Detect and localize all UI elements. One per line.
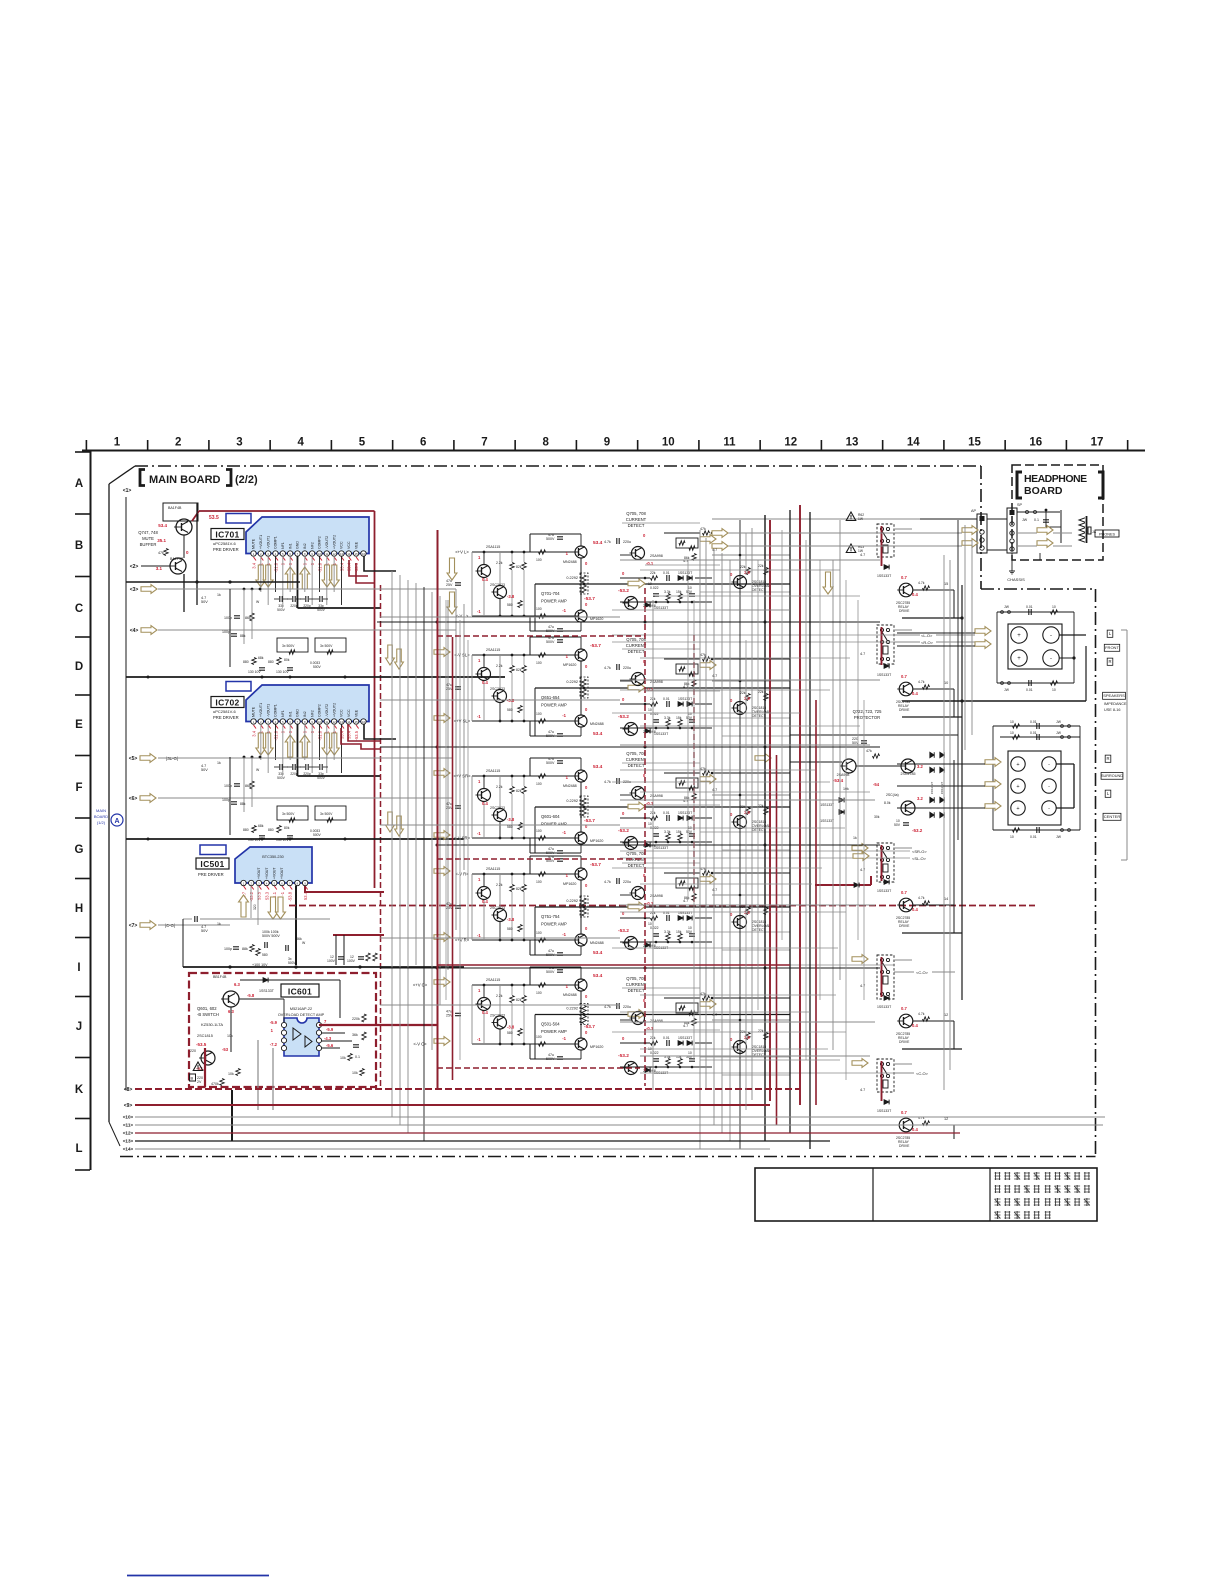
svg-text:100V: 100V	[347, 959, 356, 963]
svg-text:2SC1815: 2SC1815	[197, 1034, 213, 1038]
svg-text:0.4: 0.4	[912, 691, 918, 696]
svg-text:1SS133T: 1SS133T	[678, 697, 692, 701]
svg-text:0.01: 0.01	[1026, 605, 1033, 609]
svg-text:NF1: NF1	[281, 542, 285, 549]
svg-text:-53.2: -53.2	[618, 828, 629, 834]
svg-text:4: 4	[298, 437, 305, 449]
svg-text:4.7k: 4.7k	[918, 896, 925, 900]
svg-text:4.7: 4.7	[712, 1013, 717, 1017]
svg-text:DRIVE: DRIVE	[899, 1040, 910, 1044]
svg-text:4.7: 4.7	[860, 984, 865, 988]
svg-text:88k: 88k	[240, 634, 246, 638]
svg-text:1SS133T: 1SS133T	[930, 782, 934, 795]
svg-text:Q705, 708: Q705, 708	[626, 976, 646, 981]
svg-text:<10>: <10>	[123, 1115, 134, 1120]
svg-text:+VOUT1: +VOUT1	[259, 703, 263, 717]
svg-text:0.01: 0.01	[1030, 720, 1037, 724]
svg-text:100: 100	[536, 931, 542, 935]
svg-text:-53.5: -53.5	[196, 1042, 207, 1047]
svg-text:-: -	[1050, 656, 1052, 662]
svg-text:12: 12	[784, 437, 797, 449]
svg-text:1k: 1k	[217, 922, 221, 926]
svg-text:3.3k: 3.3k	[664, 716, 671, 720]
svg-text:3x 500V: 3x 500V	[282, 644, 295, 648]
svg-text:580: 580	[262, 953, 268, 957]
svg-text:4.7k: 4.7k	[604, 880, 611, 884]
svg-text:Q651-654: Q651-654	[541, 695, 560, 700]
svg-text:68k: 68k	[258, 824, 264, 828]
svg-text:53.4: 53.4	[593, 764, 603, 770]
svg-text:MUTE: MUTE	[252, 706, 256, 717]
svg-text:-3.8: -3.8	[507, 1025, 515, 1030]
svg-text:580: 580	[507, 927, 513, 931]
svg-text:4.7: 4.7	[712, 674, 717, 678]
svg-text:Q501-504: Q501-504	[541, 1022, 560, 1027]
svg-text:+VOUT: +VOUT	[280, 868, 284, 879]
svg-text:<+V C>: <+V C>	[413, 983, 428, 988]
svg-text:10: 10	[648, 708, 652, 712]
svg-text:PRE DRIVER: PRE DRIVER	[213, 715, 239, 720]
svg-text:4.7: 4.7	[712, 788, 717, 792]
svg-text:3.1: 3.1	[156, 566, 163, 571]
svg-text:DETECT: DETECT	[752, 588, 766, 592]
svg-text:2SA1115: 2SA1115	[486, 648, 500, 652]
svg-text:0.01: 0.01	[1026, 688, 1033, 692]
svg-text:220: 220	[190, 1049, 196, 1053]
svg-text:NF2: NF2	[310, 710, 314, 717]
svg-text:MP1620: MP1620	[590, 839, 603, 843]
svg-text:POWER AMP: POWER AMP	[541, 922, 567, 927]
svg-text:1SS133T: 1SS133T	[678, 811, 692, 815]
svg-text:8.0k: 8.0k	[884, 801, 891, 805]
svg-text:DETECT: DETECT	[752, 928, 766, 932]
svg-text:3.2: 3.2	[917, 764, 923, 769]
svg-text:COMP1: COMP1	[274, 704, 278, 717]
svg-text:-53.7: -53.7	[590, 862, 601, 868]
svg-text:<2>: <2>	[130, 564, 139, 570]
svg-text:DETECT: DETECT	[628, 523, 645, 528]
svg-text:500V: 500V	[317, 776, 326, 780]
svg-text:0.4: 0.4	[912, 592, 918, 597]
svg-text:1SS133T: 1SS133T	[820, 803, 834, 807]
svg-text:470k: 470k	[211, 1082, 219, 1086]
svg-text:8: 8	[543, 437, 550, 449]
svg-text:-53: -53	[222, 1047, 229, 1052]
svg-text:F: F	[75, 782, 82, 794]
svg-text:2.2k: 2.2k	[496, 994, 503, 998]
svg-text:0.2292: 0.2292	[566, 680, 578, 684]
svg-text:53.4: 53.4	[593, 731, 603, 737]
svg-text:500V: 500V	[288, 961, 297, 965]
svg-text:JW: JW	[1022, 518, 1028, 522]
svg-text:880: 880	[268, 828, 274, 832]
svg-text:3.9: 3.9	[744, 1035, 750, 1040]
svg-text:MUTE: MUTE	[252, 538, 256, 549]
svg-text:2: 2	[175, 437, 181, 449]
svg-text:2SC3623: 2SC3623	[490, 906, 505, 910]
svg-text:DETECT: DETECT	[628, 649, 645, 654]
svg-text:0.01: 0.01	[663, 571, 670, 575]
svg-text:BUFFER: BUFFER	[140, 542, 157, 547]
svg-text:SURROUND: SURROUND	[1101, 774, 1123, 778]
svg-text:-53.7: -53.7	[590, 643, 601, 649]
svg-text:100p: 100p	[224, 784, 232, 788]
svg-text:<-V R>: <-V R>	[455, 872, 469, 877]
svg-text:53.4: 53.4	[158, 523, 167, 528]
svg-text:13: 13	[846, 437, 859, 449]
svg-text:CURRENT: CURRENT	[626, 643, 647, 648]
svg-text:53.5: 53.5	[257, 891, 262, 900]
svg-text:2.2k: 2.2k	[496, 561, 503, 565]
svg-text:2.2k: 2.2k	[496, 664, 503, 668]
svg-text:220u: 220u	[623, 880, 631, 884]
svg-text:CURRENT: CURRENT	[626, 517, 647, 522]
svg-text:22k: 22k	[740, 565, 746, 569]
svg-text:-53.2: -53.2	[618, 928, 629, 934]
svg-text:1SS133T: 1SS133T	[678, 911, 692, 915]
svg-text:3x 500V: 3x 500V	[320, 644, 333, 648]
svg-text:1SS133T: 1SS133T	[877, 574, 891, 578]
svg-text:-3.8: -3.8	[507, 817, 515, 822]
svg-text:POWER AMP: POWER AMP	[541, 1029, 567, 1034]
svg-text:220u: 220u	[623, 666, 631, 670]
svg-text:5: 5	[359, 437, 366, 449]
svg-text:SP: SP	[1017, 503, 1023, 507]
svg-text:100: 100	[536, 607, 542, 611]
svg-text:53.3: 53.3	[264, 891, 269, 900]
svg-text:NF1: NF1	[281, 710, 285, 717]
svg-text:uPC2581V-6: uPC2581V-6	[213, 709, 236, 714]
svg-text:100p: 100p	[222, 630, 230, 634]
svg-text:B: B	[191, 1076, 194, 1081]
svg-text:4.7: 4.7	[712, 888, 717, 892]
svg-text:1SS133T: 1SS133T	[654, 606, 668, 610]
svg-text:VCC: VCC	[347, 709, 351, 717]
svg-text:POWER AMP: POWER AMP	[541, 599, 567, 604]
svg-text:IC701: IC701	[215, 530, 239, 540]
svg-text:+: +	[1016, 784, 1019, 790]
svg-text:FRONT: FRONT	[1105, 645, 1119, 650]
svg-text:53.4: 53.4	[593, 950, 603, 956]
svg-text:80k: 80k	[284, 658, 290, 662]
svg-text:uPC2581V-6: uPC2581V-6	[213, 541, 236, 546]
svg-text:DETECT: DETECT	[628, 763, 645, 768]
svg-text:Q601, 602: Q601, 602	[197, 1006, 217, 1011]
svg-text:KZ530-1LTA: KZ530-1LTA	[201, 1022, 223, 1027]
svg-text:220p: 220p	[290, 772, 298, 776]
svg-text:1SS133T: 1SS133T	[877, 673, 891, 677]
svg-text:VCC: VCC	[347, 541, 351, 549]
svg-text:-5.8: -5.8	[247, 993, 255, 998]
svg-text:3x 500V: 3x 500V	[320, 812, 333, 816]
svg-text:G: G	[75, 844, 84, 856]
svg-text:4.7k: 4.7k	[604, 780, 611, 784]
svg-text:IC702: IC702	[215, 698, 239, 708]
svg-text:100V: 100V	[327, 959, 336, 963]
svg-text:35.1: 35.1	[157, 538, 166, 543]
svg-text:C: C	[75, 603, 83, 615]
svg-text:3: 3	[236, 437, 242, 449]
svg-text:0.4: 0.4	[482, 1010, 488, 1015]
svg-text:M5216AP-22: M5216AP-22	[290, 1007, 312, 1011]
svg-text:100: 100	[536, 661, 542, 665]
svg-text:3.4: 3.4	[251, 730, 256, 736]
svg-text:I: I	[77, 962, 80, 974]
svg-text:DRIVE: DRIVE	[899, 924, 910, 928]
svg-text:-53.2: -53.2	[618, 714, 629, 720]
svg-text:<7>: <7>	[129, 923, 138, 929]
svg-text:(1/2): (1/2)	[97, 820, 106, 825]
svg-text:Q705, 708: Q705, 708	[626, 851, 646, 856]
svg-text:<14>: <14>	[123, 1147, 134, 1152]
svg-text:-4.3: -4.3	[324, 1036, 332, 1041]
svg-text:36k: 36k	[352, 1033, 358, 1037]
svg-text:-: -	[1048, 762, 1050, 768]
svg-text:0.01: 0.01	[1030, 731, 1037, 735]
svg-text:+VOUT: +VOUT	[265, 868, 269, 879]
svg-text:53.4: 53.4	[593, 540, 603, 546]
svg-text:580: 580	[507, 603, 513, 607]
svg-text:4.7: 4.7	[683, 1024, 688, 1028]
svg-text:0.01: 0.01	[663, 811, 670, 815]
svg-text:<5>: <5>	[129, 756, 138, 762]
svg-text:10k: 10k	[352, 1071, 358, 1075]
svg-text:Q747, 748: Q747, 748	[138, 530, 158, 535]
svg-text:+VOUT2: +VOUT2	[332, 535, 336, 549]
svg-text:DRIVE: DRIVE	[899, 1144, 910, 1148]
svg-text:1SS133T: 1SS133T	[678, 571, 692, 575]
svg-text:JW: JW	[1004, 688, 1010, 692]
svg-text:2SC(4a): 2SC(4a)	[886, 793, 899, 797]
svg-text:BOARD: BOARD	[1024, 485, 1063, 497]
svg-text:CENTER: CENTER	[1104, 814, 1121, 819]
svg-text:580: 580	[507, 1031, 513, 1035]
svg-text:500V 500V: 500V 500V	[262, 934, 280, 938]
svg-text:-VOUT1: -VOUT1	[266, 704, 270, 717]
svg-text:MN2488: MN2488	[563, 993, 577, 997]
svg-text:L: L	[75, 1143, 82, 1155]
svg-text:0.022: 0.022	[650, 926, 659, 930]
svg-text:1SS133T: 1SS133T	[820, 819, 834, 823]
svg-text:+VOUT1: +VOUT1	[259, 535, 263, 549]
svg-text:2SA1115: 2SA1115	[486, 867, 500, 871]
svg-text:10k: 10k	[227, 1034, 233, 1038]
svg-text:COMP2: COMP2	[318, 536, 322, 549]
svg-text:47k: 47k	[158, 551, 164, 555]
svg-text:100: 100	[536, 782, 542, 786]
svg-text:IN1: IN1	[288, 711, 292, 717]
svg-text:JW: JW	[1056, 731, 1062, 735]
svg-text:14: 14	[944, 897, 948, 901]
svg-text:10: 10	[1010, 835, 1014, 839]
svg-text:<C-O>: <C-O>	[916, 1071, 929, 1076]
svg-text:220u: 220u	[623, 540, 631, 544]
svg-text:50V: 50V	[201, 929, 208, 933]
svg-text:68k: 68k	[258, 656, 264, 660]
svg-text:4.7: 4.7	[860, 868, 865, 872]
svg-text:-53.2: -53.2	[618, 1053, 629, 1059]
svg-text:2SA998: 2SA998	[650, 794, 663, 798]
svg-text:22k: 22k	[758, 804, 764, 808]
svg-text:0.4: 0.4	[482, 899, 488, 904]
svg-text:7: 7	[481, 437, 487, 449]
svg-text:1k: 1k	[853, 836, 857, 840]
svg-text:580: 580	[507, 825, 513, 829]
svg-text:3.4: 3.4	[251, 562, 256, 568]
svg-text:1: 1	[114, 437, 121, 449]
svg-text:82k: 82k	[516, 668, 522, 672]
svg-text:82k: 82k	[516, 565, 522, 569]
svg-text:IN2: IN2	[303, 543, 307, 549]
svg-text:11: 11	[723, 437, 736, 449]
svg-text:DETECT: DETECT	[628, 863, 645, 868]
svg-text:POWER AMP: POWER AMP	[541, 703, 567, 708]
svg-text:VCC: VCC	[340, 541, 344, 549]
svg-text:2SC3623: 2SC3623	[490, 583, 505, 587]
svg-text:0.1: 0.1	[1034, 518, 1039, 522]
svg-text:4.7: 4.7	[860, 652, 865, 656]
svg-text:100: 100	[536, 712, 542, 716]
svg-text:JW: JW	[1004, 605, 1010, 609]
svg-text:880: 880	[243, 828, 249, 832]
svg-text:-: -	[1048, 784, 1050, 790]
svg-text:0.7: 0.7	[901, 890, 907, 895]
svg-text:4.7k: 4.7k	[604, 666, 611, 670]
svg-text:4.7k: 4.7k	[918, 1012, 925, 1016]
svg-text:-3.8: -3.8	[507, 698, 515, 703]
svg-text:30k: 30k	[874, 815, 880, 819]
svg-text:BB1F4B: BB1F4B	[213, 975, 227, 979]
svg-text:DETECT: DETECT	[752, 828, 766, 832]
svg-text:16: 16	[1029, 437, 1042, 449]
svg-text:IMPEDANCE: IMPEDANCE	[1104, 702, 1127, 706]
svg-text:3.9: 3.9	[744, 696, 750, 701]
svg-text:<R-O>: <R-O>	[921, 640, 934, 645]
svg-text:-7.2: -7.2	[270, 1042, 278, 1047]
svg-text:BA1F4B: BA1F4B	[168, 506, 182, 510]
svg-text:MUTE: MUTE	[142, 536, 154, 541]
svg-text:MN2488: MN2488	[563, 560, 577, 564]
svg-text:22k: 22k	[650, 571, 656, 575]
svg-text:-3.8: -3.8	[507, 594, 515, 599]
svg-text:10: 10	[1052, 688, 1056, 692]
svg-text:3.2: 3.2	[917, 796, 923, 801]
svg-text:2SA998: 2SA998	[650, 894, 663, 898]
svg-text:0.01: 0.01	[1030, 835, 1037, 839]
svg-text:2SA998: 2SA998	[650, 680, 663, 684]
svg-text:0.7: 0.7	[901, 1110, 907, 1115]
svg-text:0.4: 0.4	[482, 801, 488, 806]
svg-text:500V: 500V	[546, 761, 555, 765]
svg-text:Q705, 708: Q705, 708	[626, 511, 646, 516]
svg-text:53.4: 53.4	[593, 973, 603, 979]
svg-text:53.5: 53.5	[209, 515, 219, 521]
svg-text:<3>: <3>	[130, 587, 139, 593]
svg-text:82k: 82k	[516, 789, 522, 793]
svg-text:USE 8-16: USE 8-16	[1104, 708, 1120, 712]
svg-text:88k: 88k	[242, 947, 248, 951]
svg-text:2SA1115: 2SA1115	[486, 978, 500, 982]
svg-text:-53.2: -53.2	[249, 891, 254, 901]
svg-text:2SC3623: 2SC3623	[490, 1014, 505, 1018]
svg-text:100: 100	[536, 880, 542, 884]
svg-text:CURRENT: CURRENT	[626, 757, 647, 762]
svg-text:D: D	[75, 661, 83, 673]
svg-text:1k: 1k	[217, 761, 221, 765]
svg-text:OVERLOAD DETECT AMP: OVERLOAD DETECT AMP	[278, 1013, 325, 1017]
svg-text:MAIN BOARD: MAIN BOARD	[149, 474, 221, 486]
svg-text:+: +	[1017, 656, 1021, 662]
svg-text:2SC3623: 2SC3623	[490, 806, 505, 810]
svg-text:2.2k: 2.2k	[496, 785, 503, 789]
svg-text:2.2k: 2.2k	[496, 883, 503, 887]
svg-text:<L-O>: <L-O>	[921, 633, 933, 638]
svg-text:500V: 500V	[546, 640, 555, 644]
svg-text:MP1620: MP1620	[590, 1045, 603, 1049]
svg-text:22k: 22k	[740, 805, 746, 809]
svg-text:47k: 47k	[866, 749, 872, 753]
svg-text:<-V C>: <-V C>	[413, 1042, 427, 1047]
svg-text:A: A	[114, 818, 119, 825]
svg-text:22k: 22k	[740, 691, 746, 695]
svg-text:DRIVE: DRIVE	[899, 609, 910, 613]
svg-text:10: 10	[648, 922, 652, 926]
svg-text:6.3: 6.3	[234, 982, 240, 987]
svg-text:500V: 500V	[317, 608, 326, 612]
svg-text:10: 10	[662, 437, 675, 449]
svg-text:0.2292: 0.2292	[566, 899, 578, 903]
svg-text:<11>: <11>	[123, 1123, 134, 1128]
svg-text:10: 10	[944, 681, 948, 685]
svg-text:<4>: <4>	[130, 628, 139, 634]
svg-text:COMP1: COMP1	[274, 536, 278, 549]
svg-text:10: 10	[648, 822, 652, 826]
svg-text:+100 10V: +100 10V	[252, 963, 268, 967]
svg-text:4.7k: 4.7k	[918, 680, 925, 684]
svg-text:R: R	[1106, 756, 1109, 761]
svg-text:12: 12	[944, 1117, 948, 1121]
svg-text:IN1: IN1	[288, 543, 292, 549]
svg-text:14: 14	[907, 437, 920, 449]
svg-text:82k: 82k	[516, 998, 522, 1002]
svg-text:2SA1115: 2SA1115	[486, 545, 500, 549]
svg-text:-53.2: -53.2	[618, 588, 629, 594]
svg-text:1SS133T: 1SS133T	[877, 889, 891, 893]
svg-text:4.7k: 4.7k	[918, 581, 925, 585]
svg-text:0.01: 0.01	[663, 697, 670, 701]
svg-text:4.7k: 4.7k	[604, 1005, 611, 1009]
svg-text:-5.9: -5.9	[270, 1020, 278, 1025]
svg-text:2V: 2V	[197, 1080, 202, 1084]
svg-text:H: H	[75, 903, 83, 915]
svg-text:0.4: 0.4	[912, 1023, 918, 1028]
svg-text:4.7: 4.7	[860, 553, 865, 557]
svg-text:1SS133T: 1SS133T	[877, 1109, 891, 1113]
svg-text:+VOUT2: +VOUT2	[332, 703, 336, 717]
svg-text:500V: 500V	[313, 665, 322, 669]
svg-text:2SA998: 2SA998	[837, 773, 850, 777]
svg-text:2SC3623: 2SC3623	[490, 687, 505, 691]
svg-text:NF2: NF2	[310, 542, 314, 549]
svg-text:GND: GND	[296, 709, 300, 717]
svg-text:0.4: 0.4	[912, 1127, 918, 1132]
svg-text:BTC350-230: BTC350-230	[262, 855, 284, 859]
svg-text:PRE DRIVER: PRE DRIVER	[213, 547, 239, 552]
svg-text:220k: 220k	[352, 1017, 360, 1021]
svg-text:0.2292: 0.2292	[566, 576, 578, 580]
svg-text:0.022: 0.022	[650, 1051, 659, 1055]
svg-text:GND: GND	[296, 541, 300, 549]
